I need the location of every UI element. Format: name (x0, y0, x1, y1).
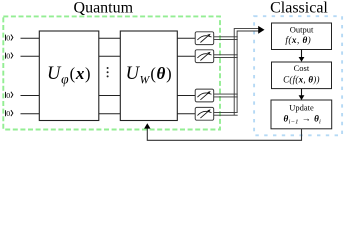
ket |0> qubit 3 (6, 92, 13, 98)
gate box U_W(theta) (120, 31, 177, 121)
measurement meter M1 (195, 32, 214, 45)
arrow Cost to Update (299, 89, 305, 101)
svg-text:0: 0 (6, 52, 10, 61)
classical double wire from M4 (214, 112, 238, 115)
feedback wire Update to quantum circuit (147, 128, 301, 140)
wire q3 right segment (177, 95, 195, 97)
wire q4 right segment (177, 113, 195, 115)
svg-text:Uφ(x): Uφ(x) (47, 64, 91, 86)
measurement meter M2 (195, 50, 214, 63)
feedback arrowhead (144, 123, 150, 128)
ket |0> qubit 1 (6, 35, 13, 41)
arrow into Output box (258, 26, 264, 34)
wire q3 middle segment (99, 95, 121, 97)
classical double wire from M3 (214, 94, 238, 97)
measurement meter M3 (195, 89, 214, 102)
svg-text:0: 0 (6, 91, 10, 100)
wire q2 right segment (177, 55, 195, 57)
wire q2 middle segment (99, 55, 121, 57)
classical double wire from M2 (214, 55, 238, 58)
svg-text:f(x, θ): f(x, θ) (285, 35, 311, 45)
svg-text:Cost: Cost (294, 63, 310, 73)
svg-text:Quantum: Quantum (74, 0, 134, 17)
vertical ellipsis between gate boxes (107, 67, 109, 77)
classical bus vertical double line (234, 29, 259, 116)
svg-text:Update: Update (289, 102, 314, 112)
classical region dashed border (254, 16, 342, 135)
classical double wire from M1 (214, 37, 238, 40)
Output box (272, 23, 332, 50)
quantum region dashed border (3, 16, 220, 129)
svg-text:Output: Output (290, 24, 314, 34)
wire q2 left segment (21, 55, 40, 57)
wire q1 left segment (21, 37, 40, 39)
Cost box (272, 62, 332, 89)
svg-text:Classical: Classical (270, 0, 328, 17)
arrow Output to Cost (299, 50, 305, 62)
svg-text:0: 0 (6, 34, 10, 43)
svg-text:C(f(x, θ)): C(f(x, θ)) (283, 75, 320, 85)
wire q4 left segment (21, 113, 40, 115)
svg-text:0: 0 (6, 109, 10, 118)
wire q1 middle segment (99, 37, 121, 39)
Update box (271, 100, 332, 129)
wire q3 left segment (21, 95, 40, 97)
gate box U_phi(x) (39, 31, 99, 121)
wire q1 right segment (177, 37, 195, 39)
ket |0> qubit 4 (6, 110, 13, 116)
measurement meter M4 (195, 107, 214, 120)
ket |0> qubit 2 (6, 53, 13, 59)
wire q4 middle segment (99, 113, 121, 115)
